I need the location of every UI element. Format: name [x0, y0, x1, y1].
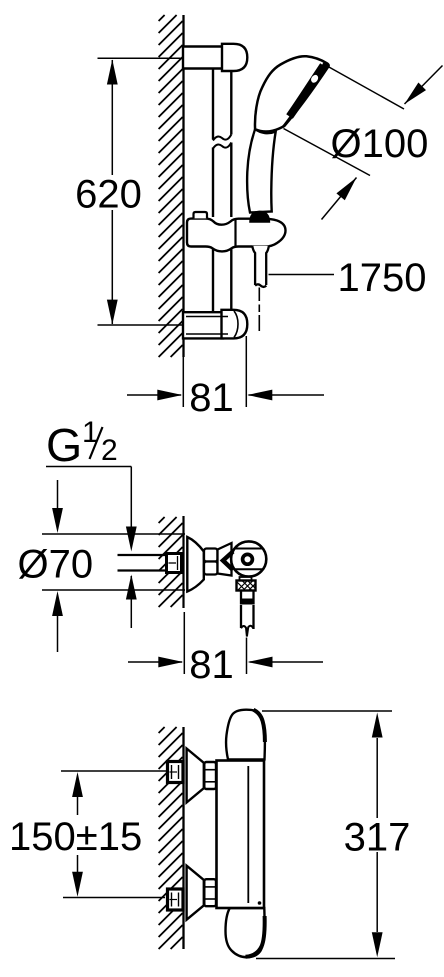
wall (top section): [159, 15, 184, 357]
svg-text:620: 620: [75, 173, 142, 217]
dimension 620 line + arrows: [111, 60, 113, 324]
hand shower handle: [247, 129, 276, 212]
dimension 81 (middle) extension lines: [183, 612, 185, 674]
dimension 81 (top) extension lines: [182, 357, 184, 407]
outlet collar: [240, 577, 252, 581]
dimension 620 extension line top: [98, 57, 183, 59]
dimension 150 extension lines: [61, 770, 168, 772]
svg-text:2: 2: [101, 434, 118, 467]
supply pipe stub: [118, 555, 167, 571]
valve chevron notch: [223, 552, 233, 571]
svg-text:Ø70: Ø70: [18, 543, 94, 587]
dimension 317 line + arrows: [376, 738, 378, 818]
hose (middle): [241, 605, 254, 637]
spray face dark band: [290, 66, 324, 117]
union nut (hot): [204, 762, 216, 789]
dimension 317 extension lines: [262, 710, 392, 712]
dimension 81 (top) arrows: [127, 394, 181, 396]
supply nut behind wall (cold): [168, 889, 184, 910]
hose length leader line: [269, 274, 335, 276]
dimension O100 arrow upper: [405, 66, 443, 105]
hose centerline (dash-dot): [258, 288, 260, 332]
glide/handle joint line: [234, 220, 236, 247]
svg-text:G: G: [46, 419, 82, 471]
supply pipe nut: [167, 554, 182, 573]
svg-text:150±15: 150±15: [9, 815, 142, 859]
glide holder body: [187, 219, 286, 252]
G1/2 leader line: [46, 466, 131, 468]
spray face white dot: [310, 74, 320, 85]
wall (bottom section): [159, 727, 184, 949]
svg-text:317: 317: [344, 816, 411, 860]
svg-text:1750: 1750: [338, 256, 427, 300]
G1/2 lower arrow: [130, 576, 132, 628]
supply nut behind wall (hot): [168, 762, 184, 783]
shower rail bottom bracket: [183, 310, 247, 339]
dimension O100 extension lines: [328, 67, 404, 110]
dimension 81 (middle) arrows: [128, 661, 182, 663]
thermostat bottom knob: [226, 908, 265, 957]
union nut (cold): [204, 879, 216, 906]
svg-text:81: 81: [189, 376, 234, 420]
hose flare + tube: [252, 246, 269, 286]
head/face separation line: [282, 62, 325, 128]
dimension O100 arrow lower: [322, 178, 357, 220]
dimension O70 arrows: [57, 480, 59, 509]
dimension O70 extension lines: [42, 533, 185, 535]
valve body (middle): [218, 543, 232, 576]
escutcheon cone (cold): [187, 866, 204, 920]
wall (middle section): [159, 516, 184, 608]
escutcheon cone (middle): [187, 537, 204, 592]
union flats nut (middle): [204, 549, 218, 575]
knurled hose nut: [237, 581, 256, 591]
escutcheon cone (hot): [187, 749, 204, 803]
valve center ring: [243, 554, 253, 564]
dimension 620 extension line bottom: [98, 324, 183, 326]
shower rail top bracket: [183, 44, 247, 71]
dimension 150 arrows: [77, 796, 79, 815]
glide lock tab: [194, 212, 208, 218]
shower rail tube: [213, 69, 231, 311]
thermostat top knob: [226, 710, 265, 760]
hose connector nut (dark): [249, 211, 270, 223]
svg-text:Ø100: Ø100: [331, 122, 429, 166]
rail break squiggle: [213, 135, 231, 149]
thermostat body: [217, 761, 265, 909]
shower head dome: [255, 56, 329, 131]
svg-text:81: 81: [189, 643, 234, 687]
outlet tube: [241, 591, 254, 605]
